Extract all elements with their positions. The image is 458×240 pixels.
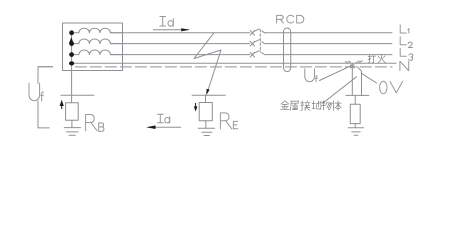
equipment bar at RE xyxy=(192,94,225,96)
switch Q3 blade xyxy=(253,51,264,55)
arrowhead Id bottom xyxy=(146,125,155,129)
ground RE xyxy=(198,128,214,135)
wire PE dashed xyxy=(75,66,392,68)
label N xyxy=(400,61,409,70)
switch Q2 cross xyxy=(250,41,254,46)
label RB : R xyxy=(86,115,97,131)
arrowhead fault xyxy=(206,89,209,96)
wire bar to resistor xyxy=(354,95,356,104)
label 打火 : 打 xyxy=(368,55,375,63)
Id bottom arrow line xyxy=(149,126,181,128)
wire L1 xyxy=(110,32,249,34)
wire L2 xyxy=(110,43,249,45)
wire N xyxy=(72,62,396,64)
switch Q2 blade xyxy=(253,40,264,44)
Id top arrow line xyxy=(153,29,188,31)
label Id bottom : d xyxy=(165,118,170,123)
equipment bar over RB xyxy=(61,94,94,96)
label L1 xyxy=(400,25,409,33)
label 金属接地物体 : 属 xyxy=(291,101,299,110)
switch Q3 cross xyxy=(250,52,254,57)
wire resistor to ground xyxy=(354,124,356,128)
wire L3 xyxy=(110,54,249,56)
arrowhead Id top xyxy=(181,28,190,31)
wire RE to ground xyxy=(205,121,207,128)
winding L3 xyxy=(72,50,123,55)
wire RB arrow shaft xyxy=(61,105,62,109)
label RE : R xyxy=(220,113,232,129)
label RE : E xyxy=(233,121,237,128)
label 金属接地物体 : 物 xyxy=(322,101,331,110)
wire L3 after switch xyxy=(265,54,393,56)
arrowhead star up xyxy=(69,37,74,43)
fault zigzag wire xyxy=(194,33,221,93)
label 0V : 0 xyxy=(380,81,387,93)
letter glyphs drawn as strokes xyxy=(29,15,413,131)
ground metal object xyxy=(348,128,363,135)
label Id top : I xyxy=(160,17,166,27)
arrow RB up xyxy=(60,100,64,106)
label Id bottom : I xyxy=(157,114,163,123)
winding L2 xyxy=(72,39,123,44)
RCD oval xyxy=(284,28,291,72)
label Id top : d xyxy=(168,21,173,27)
label 金属接地物体 : 地 xyxy=(312,101,321,109)
label 金属接地物体 : 接 xyxy=(301,101,310,111)
star-point vertical wire xyxy=(71,33,73,103)
wire RB to ground xyxy=(71,120,73,127)
label L3 xyxy=(400,48,413,60)
label 金属接地物体 : 金 xyxy=(281,101,290,110)
label Uf right : f xyxy=(316,76,318,82)
label 0V : V xyxy=(390,81,403,93)
pointer line Uf right xyxy=(320,65,352,80)
arrow RE down xyxy=(194,106,198,111)
wire PE branch to v2 xyxy=(358,67,362,96)
spark ticks right xyxy=(356,61,362,63)
node dot N xyxy=(69,61,74,65)
switch Q1 blade xyxy=(253,29,264,33)
resistor RE xyxy=(199,103,212,121)
switch linkage dashed xyxy=(259,30,261,53)
winding L1 xyxy=(72,28,123,33)
wire L1 after switch xyxy=(265,32,393,34)
node dot L1 xyxy=(69,30,74,35)
node dot L3 xyxy=(69,52,74,57)
transformer box T xyxy=(63,23,123,71)
metal object bar xyxy=(346,94,369,96)
wire L2 after switch xyxy=(265,43,393,45)
wire PE solid start (Uf bracket arm) xyxy=(38,66,53,68)
label Uf left : U xyxy=(29,83,40,100)
label RCD : C xyxy=(287,15,294,23)
switch Q1 cross xyxy=(250,31,254,36)
pointer line 0V xyxy=(362,74,377,83)
wire bar to RE xyxy=(205,95,207,102)
label Uf left : f xyxy=(41,92,44,101)
label Uf right : U xyxy=(305,69,315,82)
chinese labels drawn as strokes xyxy=(281,55,386,111)
pointer line metal label xyxy=(324,77,357,103)
Uf bracket left xyxy=(38,67,53,128)
label 打火 : 火 xyxy=(378,55,386,63)
node contact cross xyxy=(351,65,355,68)
resistor RB xyxy=(66,103,79,121)
resistor of metal object xyxy=(350,104,360,123)
node dot L2 xyxy=(69,41,74,46)
wire RE arrow shaft xyxy=(195,103,196,107)
label RCD : D xyxy=(297,15,304,23)
label RB : B xyxy=(99,123,104,132)
spark ticks left xyxy=(345,61,350,63)
ground RB xyxy=(64,128,80,136)
black filled marks xyxy=(60,28,210,129)
wire N contact vertical v1 xyxy=(351,63,353,95)
label L2 xyxy=(400,37,412,48)
label 金属接地物体 : 体 xyxy=(333,101,342,111)
label RCD : R xyxy=(277,15,284,23)
